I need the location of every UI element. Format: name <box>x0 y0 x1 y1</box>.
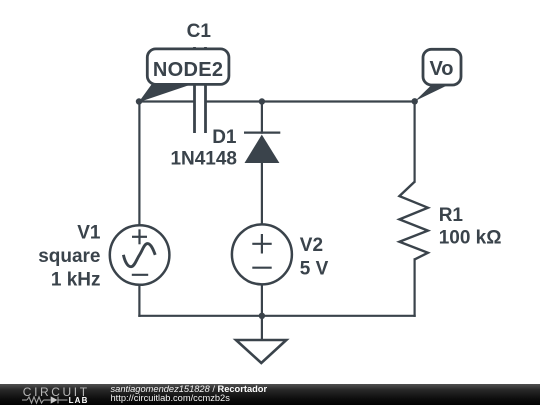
node Vo flag pointer <box>415 86 447 102</box>
footer bar <box>0 384 540 405</box>
wire node B down to D1 cathode bar <box>261 102 263 133</box>
wire V1 bottom: V1 circle to bottom wire <box>138 285 140 316</box>
node Vo flag box <box>423 49 461 85</box>
svg-text:Vo: Vo <box>429 58 453 80</box>
ground <box>236 340 286 363</box>
svg-text:D1: D1 <box>212 127 237 148</box>
svg-text:1N4148: 1N4148 <box>170 149 237 170</box>
node NODE2 flag pointer <box>139 85 191 103</box>
footer text <box>111 385 268 403</box>
CircuitLab logo <box>0 384 100 406</box>
svg-text:100 kΩ: 100 kΩ <box>439 228 502 249</box>
svg-text:1 kHz: 1 kHz <box>51 270 101 291</box>
voltage source V1 <box>110 225 170 285</box>
svg-text:V1: V1 <box>77 223 101 244</box>
wire top-right: C1 right plate to node C through node B <box>206 100 415 102</box>
svg-text:C1: C1 <box>187 21 212 42</box>
voltage source V2 <box>232 224 292 284</box>
capacitor C1 <box>195 47 206 133</box>
node ground junction dot <box>259 313 265 319</box>
svg-text:square: square <box>38 246 100 267</box>
wire bottom: V1 bottom corner to R1 bottom corner <box>139 315 414 317</box>
svg-text:LAB: LAB <box>69 396 89 405</box>
node Vo junction dot <box>412 98 418 104</box>
svg-text:NODE2: NODE2 <box>153 59 223 81</box>
svg-text:5 V: 5 V <box>300 259 329 280</box>
svg-text:R1: R1 <box>439 205 464 226</box>
wire top-left: node A to C1 left plate <box>139 100 194 102</box>
diode D1 <box>244 133 280 163</box>
wire ground stem <box>261 316 263 340</box>
wire D1 anode to V2 top <box>261 163 263 225</box>
wire right vertical top: node C to R1 <box>414 102 416 182</box>
node B junction dot <box>259 98 265 104</box>
node A junction dot <box>136 98 142 104</box>
node NODE2 flag box <box>147 49 229 85</box>
wire right vertical bottom: R1 to bottom wire <box>414 259 416 315</box>
svg-text:V2: V2 <box>300 235 323 256</box>
wire V2 bottom to bottom wire <box>261 284 263 316</box>
wire left vertical: node A down to V1 top <box>138 102 140 227</box>
resistor R1 <box>399 182 428 260</box>
